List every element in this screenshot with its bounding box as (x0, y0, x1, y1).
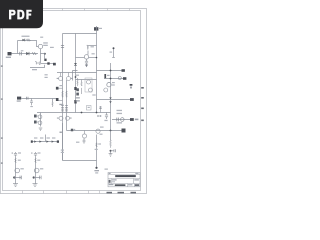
zener D6 (104, 74, 106, 78)
wire fb (21, 98, 56, 100)
resistor R1 (27, 39, 31, 41)
capacitor C16 (40, 176, 42, 180)
label (98, 143, 101, 144)
diode D7 (109, 97, 111, 103)
transistor Q7 (66, 116, 72, 120)
wire upper branch (18, 40, 37, 42)
value label (21, 50, 24, 51)
wire stub pad3 (97, 99, 131, 101)
transistor Q13 (96, 129, 100, 133)
transistor Q5 (67, 73, 73, 81)
transistor Q12 (82, 131, 86, 139)
capacitor C8 hanging (30, 99, 33, 106)
current mirror Q8 (34, 113, 42, 131)
net pad fb1 (56, 87, 59, 90)
junction (75, 76, 77, 78)
diode D11 (52, 140, 54, 142)
resistor R17 (35, 158, 37, 162)
diode D9 (39, 140, 41, 142)
junction (33, 176, 35, 178)
value label (50, 47, 54, 48)
wire stub (14, 177, 21, 179)
wire stub (34, 177, 41, 179)
junction (13, 176, 15, 178)
sheet label (128, 184, 132, 185)
wire right drop (96, 135, 98, 168)
label (92, 94, 95, 95)
labels below (76, 97, 80, 98)
title text (115, 175, 136, 177)
mark above title block (105, 169, 108, 170)
date label (109, 184, 114, 185)
net pad fb2 (56, 98, 59, 101)
ground (109, 152, 113, 157)
transistor Q3 (76, 51, 98, 60)
date value (115, 184, 126, 186)
bias flag TP (110, 47, 116, 57)
wire bottom rail (63, 160, 97, 162)
size label (112, 179, 117, 180)
wire emitters (62, 80, 64, 161)
resistor R5 (87, 45, 89, 49)
PDF badge label (9, 10, 32, 20)
wire driver bus (67, 130, 97, 132)
labels R5/Q3 (91, 46, 94, 47)
resistor R8 (61, 106, 64, 111)
diode D1 (26, 52, 29, 55)
transistor Q10 (89, 88, 93, 92)
dark comp on mid rail (74, 87, 76, 90)
junction (110, 150, 112, 152)
connector circle (118, 77, 121, 80)
ground arrow (85, 65, 88, 68)
pad right (57, 140, 59, 142)
label (61, 150, 64, 151)
value label (40, 37, 43, 38)
transistor Q15 (34, 168, 39, 173)
transistor Q8b (38, 121, 42, 125)
wire node stub (41, 63, 54, 65)
transistor Q8 (38, 115, 42, 119)
net pad A (47, 62, 49, 64)
capacitor C2 (44, 59, 46, 61)
capacitor C15 (34, 152, 37, 156)
net flag arrow (130, 84, 133, 89)
box outline (85, 78, 92, 92)
wire vas top (76, 79, 97, 81)
transistor Q1 (36, 41, 43, 54)
wire right col (110, 63, 112, 130)
wire resistor top (88, 45, 97, 47)
sheet value (135, 184, 139, 186)
resistor R16 (15, 158, 17, 162)
junction (81, 112, 83, 114)
wire +V drop (96, 26, 98, 113)
net label INPUT (8, 52, 12, 55)
net pad OUT (122, 129, 126, 133)
resistor R3 (35, 62, 40, 65)
wire out top (97, 130, 122, 132)
junction (96, 112, 98, 114)
labels above (34, 137, 37, 138)
diode D12 (34, 115, 37, 118)
diode D13 (34, 121, 37, 124)
resistor R11b (81, 80, 82, 95)
resistor R9a (66, 91, 68, 97)
label out (94, 170, 99, 171)
diode D4 (76, 88, 79, 91)
net pad D (123, 77, 126, 80)
wire zobel (110, 131, 112, 141)
wire left drop (62, 123, 64, 161)
value label (32, 69, 37, 70)
diode D2 (22, 39, 24, 42)
capacitor C7 (27, 97, 29, 100)
junction dot (44, 53, 46, 55)
label Q1 (43, 42, 48, 43)
net pad A2 (53, 63, 56, 66)
ground (33, 183, 38, 186)
net pad E (130, 98, 134, 101)
resistor R11 (77, 78, 78, 86)
diode D5 (76, 93, 79, 96)
diode D3 (74, 63, 77, 65)
transistor Q11 (107, 83, 111, 87)
size C (109, 180, 111, 183)
diode D10 (46, 140, 48, 142)
ground (13, 183, 18, 186)
ground marks (39, 128, 43, 130)
capacitor C10 (105, 113, 108, 120)
capacitor C13 (14, 152, 17, 156)
capacitor C14 (20, 176, 22, 180)
transistor Q14 (15, 168, 20, 173)
capacitor C4 (61, 46, 64, 48)
diode D8 (34, 140, 36, 142)
wire (15, 156, 17, 183)
transistor Q11b (104, 88, 108, 92)
wire lower stub (30, 65, 45, 68)
label (107, 75, 110, 76)
PDF badge (0, 0, 43, 28)
wire out row (112, 119, 130, 121)
resistor R15 (96, 143, 98, 147)
net pad F (130, 118, 134, 121)
junction (110, 78, 112, 80)
header text (109, 173, 111, 174)
capacitor C11 (111, 149, 116, 152)
wire chain stub up (45, 135, 47, 142)
resistor R8a (62, 91, 64, 97)
value label (76, 142, 79, 143)
wire top rail (63, 33, 97, 35)
value labels LTP (45, 74, 48, 75)
node OUT dot (95, 167, 97, 169)
junction (110, 130, 112, 132)
wire stub (73, 71, 78, 81)
wire feedback (57, 72, 97, 74)
resistor R14 (110, 140, 112, 148)
wire (35, 156, 37, 183)
wire vertical joining branches (17, 41, 19, 54)
pad label (135, 119, 139, 121)
value label (22, 36, 30, 37)
label above out wire (100, 127, 104, 128)
capacitor C1 (20, 52, 22, 56)
resistor R9 (65, 106, 68, 111)
label tick (60, 132, 62, 133)
junction (110, 70, 112, 72)
net pad C (122, 69, 125, 72)
capacitor C12 (83, 138, 86, 143)
wire chain (32, 141, 59, 143)
diode D14 (71, 129, 73, 132)
value label below (117, 122, 123, 123)
net label IN2 (17, 97, 21, 100)
capacitor C5 with ground (85, 59, 88, 64)
wire to node (40, 54, 42, 64)
output RC row labels (117, 110, 123, 111)
wire left rail (62, 34, 64, 81)
relay box K2 (87, 106, 92, 111)
resistor R7 (52, 99, 53, 107)
wire input main (12, 53, 39, 55)
label (76, 75, 79, 76)
pad left (31, 140, 33, 142)
comp on riser (99, 106, 102, 113)
dark comp on mid rail 2 (74, 100, 76, 104)
resistor R2 (32, 52, 36, 55)
wire mid rail (75, 34, 77, 113)
resistor R13 (116, 118, 118, 122)
transistor Q4 (57, 73, 63, 81)
wire stub pad2 (104, 78, 123, 80)
resistor R12 (97, 115, 102, 117)
transistor Q9 (87, 80, 91, 84)
transistor Q6 (57, 116, 63, 120)
wire mid bus (37, 112, 111, 114)
power net flag (94, 27, 98, 30)
inductor L1 (121, 118, 125, 122)
wire stub pad1 (97, 70, 122, 72)
labels (112, 82, 115, 83)
wire emitter branch (41, 54, 45, 59)
